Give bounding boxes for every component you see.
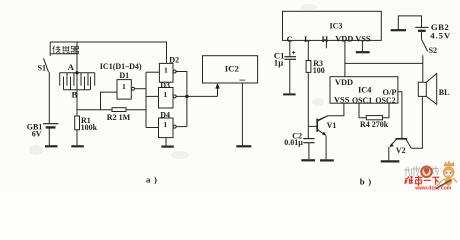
- svg-text:1: 1: [163, 120, 167, 129]
- resistor R1: [75, 116, 80, 130]
- wire D2 output to junction: [176, 72, 187, 127]
- scan smudges: [29, 4, 324, 159]
- wire R1 to ground: [76, 130, 78, 146]
- svg-text:R4 270k: R4 270k: [360, 120, 389, 129]
- op-amp block IC2: [203, 56, 258, 83]
- svg-text:www.dzsc.com: www.dzsc.com: [414, 185, 452, 191]
- wire C2 to ground: [308, 143, 310, 160]
- wire OSC2 pin: [383, 103, 390, 118]
- svg-text:V2: V2: [396, 146, 406, 155]
- watermark mascot: [436, 161, 457, 189]
- wire D3 output to IC2: [176, 95, 217, 97]
- svg-text:D1: D1: [119, 71, 129, 80]
- wire D4 input: [146, 127, 159, 129]
- wire IC4 VSS pin to V1 collector: [317, 103, 344, 121]
- inverter D1: [117, 80, 135, 100]
- svg-text:L: L: [304, 35, 310, 44]
- wire D4 output: [176, 126, 187, 128]
- capacitor C1: [285, 51, 297, 60]
- svg-text:VSS: VSS: [355, 35, 371, 44]
- svg-text:A: A: [68, 62, 75, 72]
- svg-text:S2: S2: [429, 46, 437, 55]
- wire OSC1 pin: [359, 103, 366, 118]
- wire D3 input: [146, 95, 159, 97]
- svg-text:V1: V1: [327, 121, 337, 130]
- wire L pin of IC3: [307, 40, 309, 60]
- IC2 right pin: [241, 83, 243, 145]
- ground below V2: [381, 160, 400, 162]
- resistor R2: [112, 108, 126, 112]
- svg-text:0.01μ: 0.01μ: [284, 138, 303, 147]
- svg-text:IC1(D1–D4): IC1(D1–D4): [100, 62, 142, 71]
- battery GB1: [43, 124, 59, 146]
- wire VDD pin of IC3 down to IC4: [344, 40, 346, 76]
- svg-text:IC3: IC3: [330, 22, 343, 31]
- svg-text:1: 1: [122, 82, 126, 91]
- wire top rail circuit a: [50, 42, 166, 63]
- capacitor C2: [303, 139, 314, 143]
- wire S2 to speaker: [422, 55, 424, 82]
- switch S2: [422, 40, 428, 52]
- IC2 left pin with arrow: [215, 83, 219, 96]
- ground below R1: [71, 145, 84, 147]
- wire H pin stub: [325, 40, 327, 48]
- svg-text:OSC1: OSC1: [352, 96, 372, 105]
- sensor electrode element: [60, 73, 95, 90]
- resistor R3: [306, 61, 311, 73]
- svg-text:BL: BL: [439, 88, 450, 97]
- ground below V1: [320, 159, 334, 161]
- svg-text:C: C: [287, 35, 293, 44]
- wire D4 to ground: [165, 138, 167, 146]
- battery GB2 positive bar: [391, 16, 422, 30]
- wire V1 emitter to ground: [325, 136, 327, 160]
- svg-text:100k: 100k: [81, 123, 98, 132]
- transistor V2: [389, 139, 411, 149]
- wire S1 lower to battery: [48, 72, 50, 123]
- wire D2 input: [146, 71, 159, 73]
- switch S1: [44, 58, 49, 72]
- wire VDD rail to S2: [345, 62, 423, 64]
- wire VSS pin of IC3: [361, 40, 363, 51]
- sensor box underline (chuangganqi): [50, 53, 77, 55]
- watermark gray text: [404, 166, 439, 176]
- wire node B to R2 and D1 input: [77, 109, 112, 111]
- ground below IC2: [236, 145, 251, 147]
- watermark red text weiku yixia: [405, 176, 440, 186]
- svg-text:IC4: IC4: [358, 86, 372, 95]
- svg-text:1: 1: [164, 66, 168, 75]
- svg-text:R2 1M: R2 1M: [107, 113, 131, 122]
- svg-text:b ): b ): [360, 176, 372, 186]
- svg-text:B: B: [72, 89, 78, 99]
- ground below GB1: [45, 145, 58, 147]
- ground below C2: [301, 159, 315, 161]
- transistor V1: [308, 116, 328, 136]
- ground below IC3 VSS: [356, 51, 370, 53]
- wire R2 to bus: [126, 109, 146, 111]
- wire C pin of IC3: [289, 40, 291, 56]
- IC3 block: [283, 11, 382, 40]
- svg-text:4.5V: 4.5V: [430, 31, 451, 41]
- inverter D3: [159, 88, 177, 109]
- svg-text:6V: 6V: [32, 129, 42, 138]
- resistor R4: [366, 116, 382, 120]
- ground below D4: [161, 146, 174, 148]
- svg-text:VDD: VDD: [335, 35, 353, 44]
- svg-text:VSS: VSS: [334, 95, 350, 104]
- junction dot outputs: [185, 95, 188, 98]
- svg-text:1: 1: [163, 90, 167, 99]
- svg-text:S1: S1: [38, 64, 46, 73]
- IC4 block: [330, 77, 398, 104]
- label chuangganqi (sensor) glyph strokes: [53, 46, 79, 54]
- wire speaker to V2 collector: [411, 96, 422, 148]
- watermark red circle logo: [421, 167, 432, 178]
- wire R3 down to V1 base / C2: [307, 72, 309, 138]
- svg-text:VDD: VDD: [335, 78, 353, 87]
- node A wire: [76, 42, 78, 73]
- node A junction dot: [75, 71, 78, 74]
- svg-text:D2: D2: [169, 55, 179, 64]
- inverter D4: [159, 118, 177, 138]
- svg-text:D4: D4: [160, 111, 170, 120]
- wire output bus vertical: [145, 72, 147, 127]
- wire D1 output: [135, 88, 147, 90]
- speaker BL: [418, 74, 436, 105]
- svg-text:100: 100: [313, 66, 325, 75]
- wire C1 to ground: [289, 59, 291, 94]
- svg-text:H: H: [322, 35, 329, 44]
- battery GB2: [415, 27, 428, 39]
- svg-text:OSC2: OSC2: [375, 96, 395, 105]
- svg-text:a ): a ): [146, 175, 158, 185]
- wire D1 input riser: [101, 92, 118, 110]
- svg-text:D3: D3: [160, 81, 170, 90]
- wire S1 upper feed: [49, 42, 51, 56]
- wire O/P pin to V2 base: [398, 92, 402, 139]
- inverter D2: [159, 63, 176, 82]
- svg-text:1μ: 1μ: [274, 58, 283, 68]
- svg-text:IC2: IC2: [225, 63, 240, 73]
- wire V2 emitter to ground: [388, 147, 390, 160]
- ground below C1: [283, 93, 296, 95]
- node B wire: [76, 90, 78, 116]
